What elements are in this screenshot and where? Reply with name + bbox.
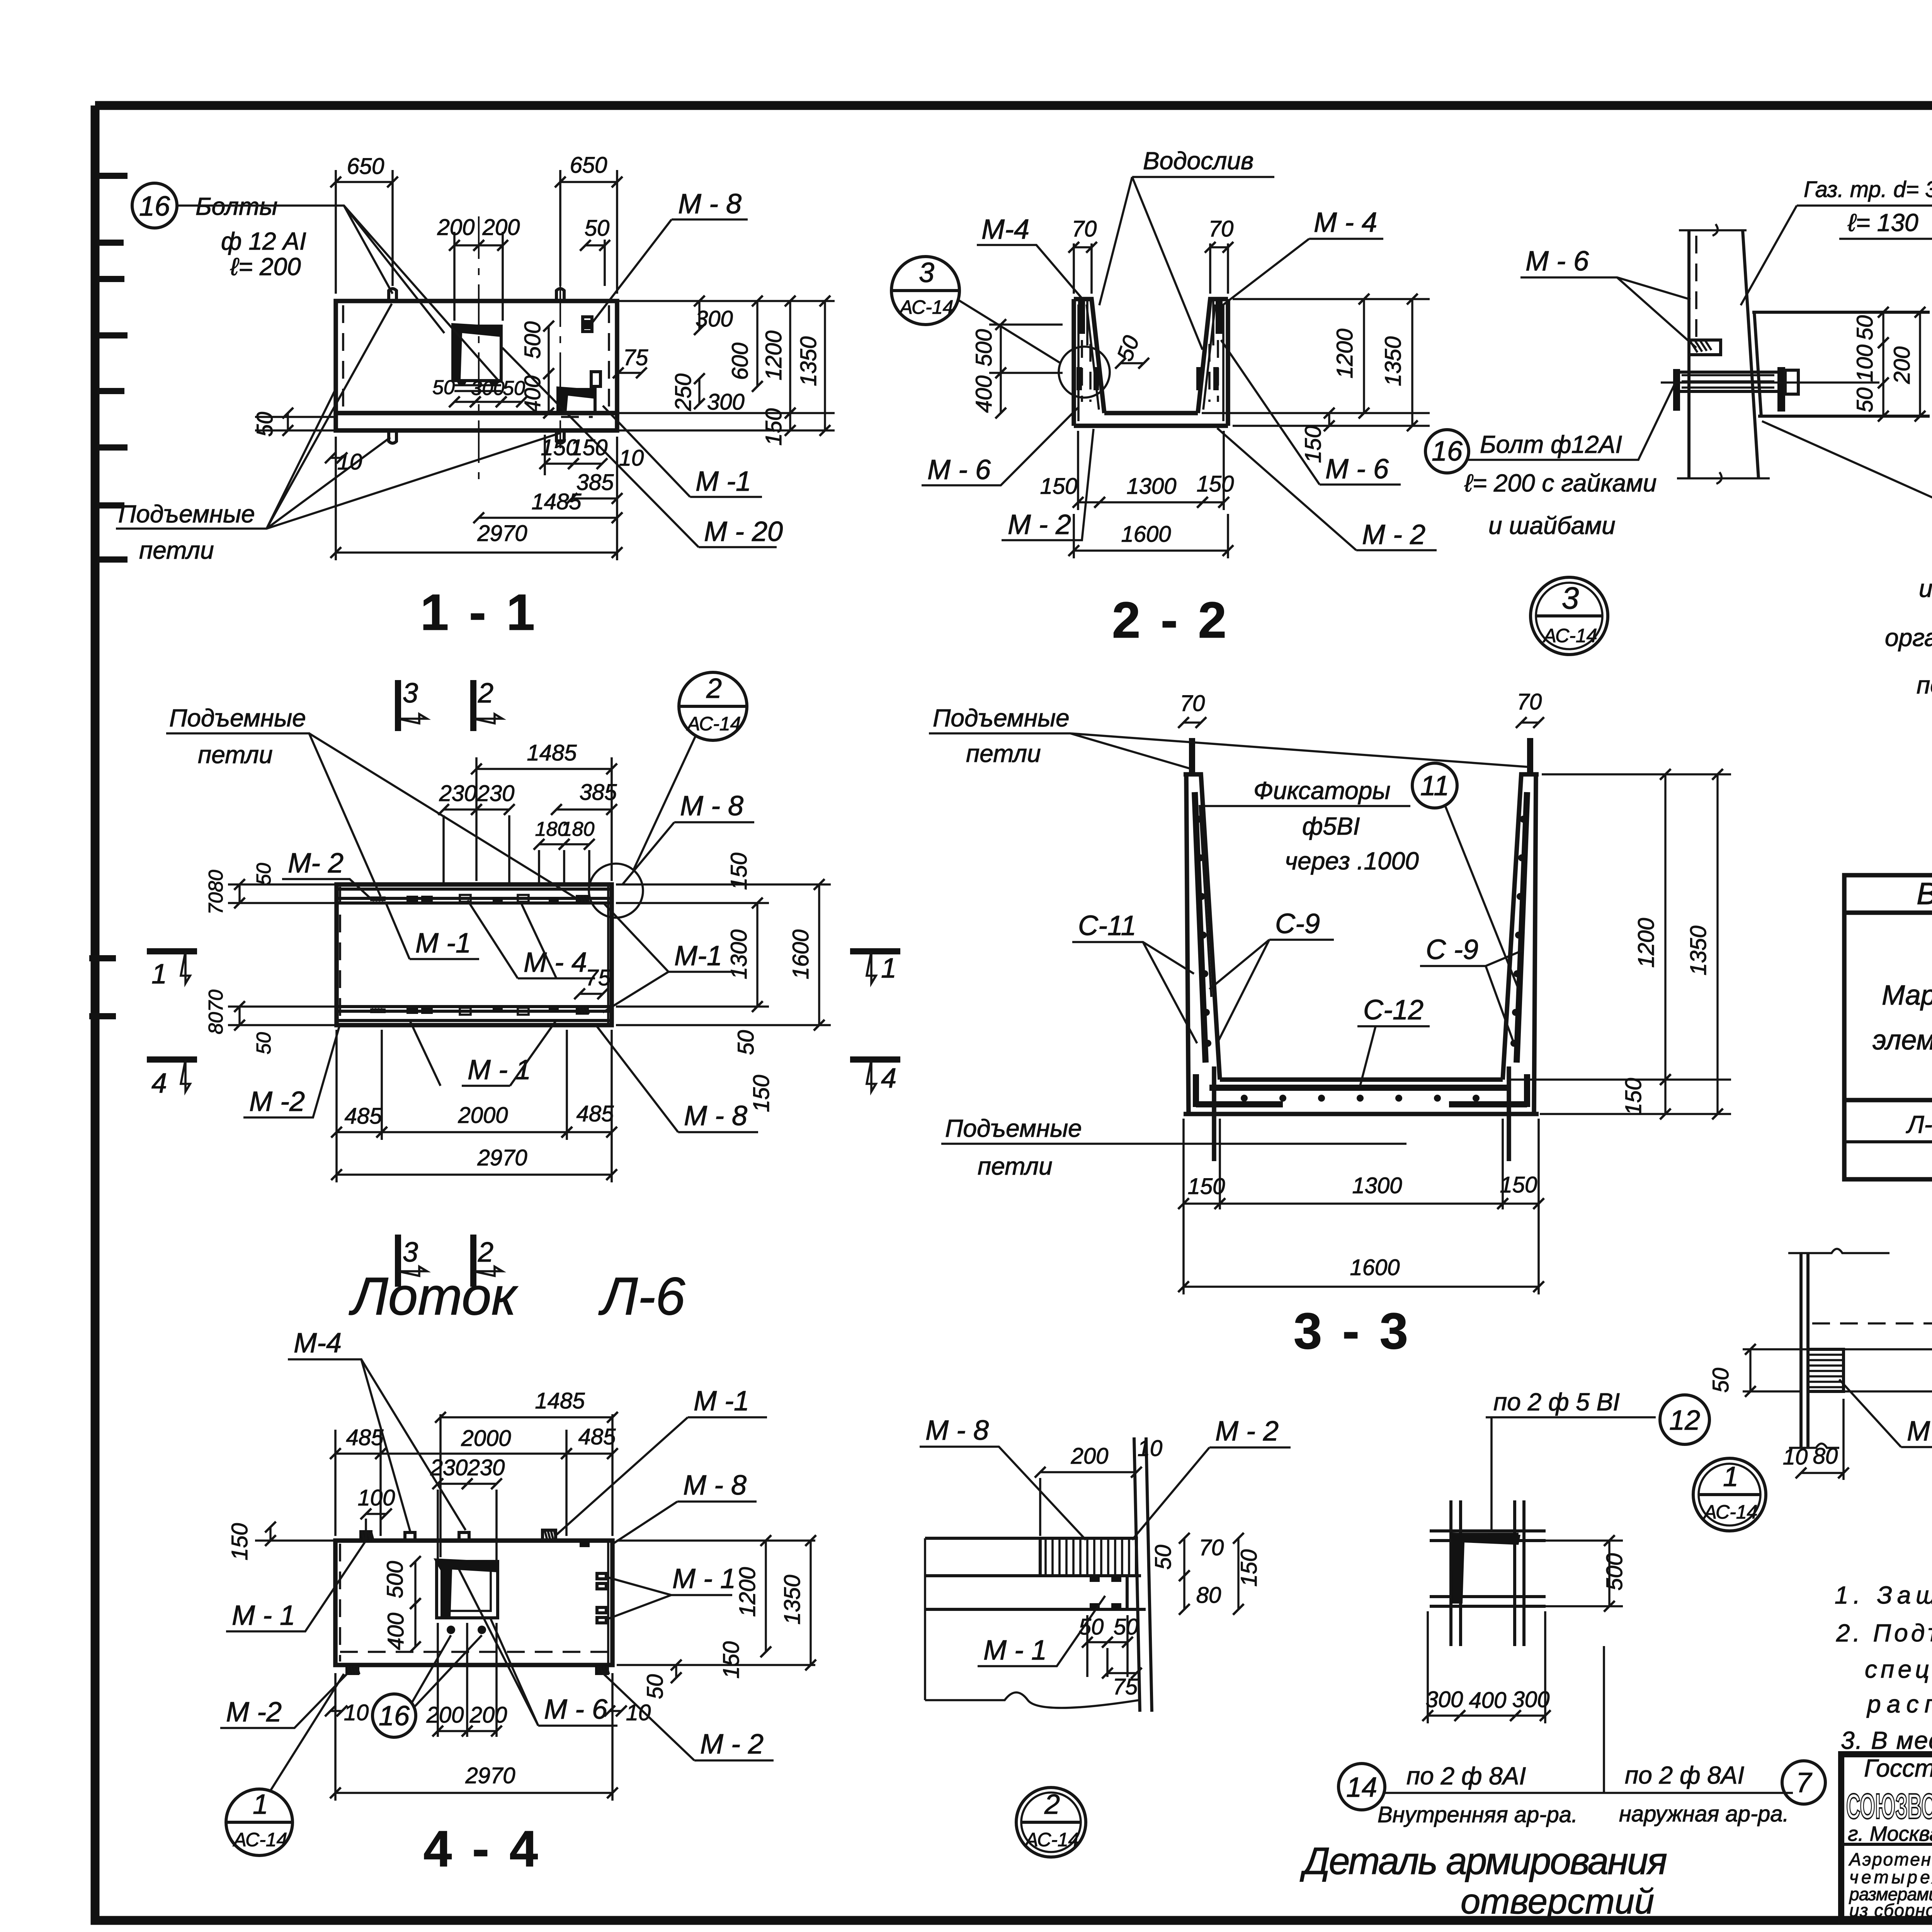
svg-text:М - 8: М - 8 [683,1470,747,1501]
svg-text:300: 300 [471,377,505,400]
svg-text:1350: 1350 [780,1575,805,1624]
svg-text:70: 70 [1517,689,1542,714]
svg-text:50: 50 [252,412,277,437]
svg-text:1350: 1350 [1686,925,1711,975]
svg-text:300: 300 [1512,1687,1550,1712]
outer rectangle [337,884,612,1025]
svg-text:400: 400 [1469,1688,1507,1713]
svg-text:200: 200 [437,215,475,240]
bottom labels [1338,1764,1385,1810]
svg-text:3: 3 [403,1237,418,1268]
svg-text:100: 100 [1852,345,1878,382]
svg-text:ℓ= 200 с гайками: ℓ= 200 с гайками [1464,469,1657,497]
svg-text:50: 50 [1852,315,1878,340]
svg-text:по 2 ф 8АI: по 2 ф 8АI [1406,1762,1526,1790]
svg-text:М -1: М -1 [415,928,471,959]
svg-text:230: 230 [439,781,477,806]
svg-text:150: 150 [1500,1172,1537,1197]
svg-text:500: 500 [383,1561,408,1599]
flag circle 3/AC-14 [891,257,959,325]
svg-text:1600: 1600 [1350,1255,1400,1280]
bottom wall band lines [337,1007,612,1020]
svg-text:АС-14: АС-14 [686,713,741,735]
opening M-20 with thick flange [454,326,501,381]
svg-text:С-12: С-12 [1363,995,1423,1026]
left wall outline [1074,299,1104,426]
svg-text:400: 400 [520,376,545,413]
svg-text:М -2: М -2 [249,1086,305,1117]
svg-text:по 2 ф 5 ВI: по 2 ф 5 ВI [1493,1388,1620,1416]
right side dims [617,300,835,302]
hatched plate M-8 [1040,1538,1136,1576]
dims [1040,1471,1136,1473]
anchor blobs left [1077,367,1099,390]
svg-text:11: 11 [1420,770,1449,801]
svg-text:Фиксаторы: Фиксаторы [1253,777,1390,804]
svg-text:Аэротенки- смесители: Аэротенки- смесители [1848,1849,1932,1869]
dim 650 right [559,170,561,286]
top bolt right [556,289,564,301]
svg-text:М - 20: М - 20 [704,516,783,547]
small embed right [559,389,595,413]
bottom dims 485 2000 485 2970 [335,1030,338,1182]
dim 500 [1526,1539,1623,1542]
svg-text:1485: 1485 [531,489,582,514]
svg-text:М - 1: М - 1 [232,1600,295,1631]
anchor blobs right [1196,367,1219,390]
svg-text:385: 385 [577,470,614,495]
dims 300 400 300 [1427,1611,1429,1723]
svg-text:ℓ= 200: ℓ= 200 [230,253,301,281]
svg-text:2000: 2000 [461,1426,511,1451]
svg-text:10: 10 [344,1700,369,1725]
flag 3/AC-14 double circle [1531,577,1608,655]
svg-text:1200: 1200 [1332,328,1357,378]
svg-text:Подъемные: Подъемные [933,704,1070,732]
svg-text:петли: петли [966,740,1041,767]
svg-text:1: 1 [151,959,167,990]
svg-text:150: 150 [1188,1174,1225,1199]
inner dashed embeds right [1209,340,1218,402]
bottom bolt mid [556,430,564,443]
svg-text:ф 12 АI: ф 12 АI [221,227,306,255]
svg-text:70: 70 [1199,1535,1224,1560]
title block [1841,1753,1932,1920]
bottom dim 1600 [1073,514,1075,558]
svg-text:400: 400 [971,376,997,413]
svg-text:1200: 1200 [761,330,786,380]
svg-text:80: 80 [1196,1583,1221,1608]
svg-text:12: 12 [1669,1405,1700,1436]
svg-text:300: 300 [696,306,733,332]
svg-text:Болт ф12АI: Болт ф12АI [1480,430,1622,458]
svg-text:2970: 2970 [477,1145,527,1170]
svg-text:петли: петли [978,1152,1053,1180]
bottom edge embeds [345,1665,359,1675]
top edge line [1752,311,1930,314]
svg-text:150: 150 [1621,1078,1646,1116]
binder tick marks [89,176,128,1016]
svg-text:485: 485 [345,1104,383,1129]
svg-text:75: 75 [586,965,611,990]
svg-text:3 - 3: 3 - 3 [1294,1303,1411,1359]
drain plate [1754,312,1761,416]
svg-text:4: 4 [881,1063,896,1094]
svg-text:180: 180 [561,818,595,840]
break marks [1677,230,1770,478]
central opening double border [437,1561,498,1618]
section cut marks 3 2 bottom [395,1235,401,1287]
svg-text:4: 4 [151,1068,167,1099]
svg-text:Выборка стали на 1 элемен: Выборка стали на 1 элемент [1917,876,1932,911]
svg-text:230: 230 [477,781,515,806]
flag 16 [372,1694,416,1737]
top edge embeds [359,1530,372,1541]
section 1-1 view [116,153,835,641]
svg-text:ф5ВI: ф5ВI [1302,812,1360,840]
svg-text:2: 2 [1044,1789,1060,1820]
svg-text:300: 300 [1426,1687,1463,1712]
svg-text:Госстрой: Госстрой [1864,1754,1932,1782]
svg-text:14: 14 [1346,1772,1377,1803]
svg-text:1350: 1350 [1381,336,1406,386]
svg-text:Подъемные: Подъемные [118,500,255,528]
svg-text:Л-6: Л-6 [598,1267,685,1326]
svg-text:75: 75 [623,345,648,370]
svg-text:М - 1: М - 1 [983,1635,1047,1666]
svg-text:1600: 1600 [1121,522,1171,547]
svg-text:из поделочного: из поделочного [1919,575,1932,602]
svg-text:1485: 1485 [527,740,577,765]
leader bolts [177,206,498,381]
small plate below [1087,1576,1127,1609]
svg-text:специальной траверсой,: специальной траверсой, не допуская перед… [1865,1655,1932,1683]
wall outline [1689,230,1759,478]
inner dashed embeds left [1082,340,1090,402]
svg-text:200: 200 [482,215,520,240]
svg-text:650: 650 [570,153,607,178]
svg-text:2970: 2970 [465,1763,515,1788]
svg-text:50: 50 [1112,332,1144,364]
hatched plate M-2 [1808,1349,1844,1391]
svg-text:10: 10 [619,446,644,471]
svg-text:7: 7 [1796,1767,1813,1798]
slab bottom [1074,423,1228,428]
svg-text:М - 6: М - 6 [927,454,991,485]
corner bars [1196,1074,1527,1107]
dim 180 180 [539,843,564,845]
lifting loop top left [1189,738,1195,774]
svg-text:200: 200 [426,1702,464,1728]
dim 650 left [335,170,337,294]
bolt through wall [1679,372,1777,391]
svg-text:50: 50 [1079,1614,1104,1639]
svg-text:400: 400 [383,1613,408,1650]
dim 50 300 50 under opening [454,401,475,403]
svg-text:1. Защитный слой: 1. Защитный слой бетона - 20мм. [1835,1581,1932,1609]
svg-text:200: 200 [1889,347,1915,384]
svg-text:наружная ар-ра.: наружная ар-ра. [1619,1801,1789,1827]
svg-text:по ТУ М Х П 26 -54: по ТУ М Х П 26 -54 [1917,671,1932,699]
svg-text:2 - 2: 2 - 2 [1112,592,1230,648]
svg-text:150: 150 [570,435,608,460]
svg-text:70: 70 [1072,216,1097,241]
svg-text:2: 2 [706,673,722,704]
svg-text:1485: 1485 [535,1388,585,1413]
svg-text:1: 1 [253,1789,268,1820]
svg-text:отверстий: отверстий [1461,1882,1654,1921]
svg-text:через .1000: через .1000 [1285,847,1419,875]
svg-text:70: 70 [1209,216,1234,241]
svg-text:М- 2: М- 2 [288,848,344,879]
svg-text:1 - 1: 1 - 1 [420,584,538,641]
svg-text:50: 50 [1708,1368,1733,1393]
dashed left joint [339,887,341,1024]
svg-text:С-11: С-11 [1078,910,1136,941]
detail circle top right [589,864,643,918]
svg-text:50: 50 [585,216,610,241]
svg-text:Марка: Марка [1882,980,1932,1011]
svg-text:1200: 1200 [735,1567,760,1617]
svg-text:М - 1: М - 1 [672,1563,736,1594]
svg-text:2: 2 [478,678,493,709]
svg-text:230: 230 [467,1455,505,1480]
svg-text:элемента: элемента [1872,1025,1932,1056]
svg-text:650: 650 [347,154,384,179]
svg-text:1200: 1200 [1634,918,1659,968]
formwork dashed line right [608,305,610,410]
svg-text:М - 2: М - 2 [700,1729,764,1760]
svg-text:3: 3 [1562,581,1579,615]
element body outline [336,301,617,413]
svg-text:Деталь армирования: Деталь армирования [1299,1840,1667,1882]
flag 2/AC-14 double [1016,1787,1086,1857]
rebar dots left wall [1195,816,1527,1102]
svg-text:петли: петли [198,741,273,769]
svg-text:СОЮЗВОДОКАНАЛПРОЕКТ: СОЮЗВОДОКАНАЛПРОЕКТ [1846,1787,1932,1826]
svg-text:500: 500 [971,329,997,367]
svg-text:80: 80 [205,870,227,892]
svg-text:200: 200 [1071,1444,1109,1469]
section cut marks 1 4 right [850,948,900,954]
svg-text:150: 150 [726,853,752,890]
svg-text:М - 2: М - 2 [1215,1416,1279,1447]
svg-text:Л- 6: Л- 6 [1906,1111,1932,1138]
svg-text:М - 8: М - 8 [925,1415,989,1446]
svg-text:1300: 1300 [1126,474,1176,499]
svg-text:500: 500 [1602,1553,1627,1591]
svg-text:Подъемные: Подъемные [169,704,306,732]
top surface lines [925,1538,1146,1609]
svg-text:230: 230 [430,1455,468,1480]
data row [1906,1106,1932,1138]
dims 500 400 left [989,323,1063,326]
svg-text:50: 50 [432,376,455,399]
svg-text:500: 500 [520,321,545,359]
loop bars through slab [1214,1066,1509,1161]
svg-text:16: 16 [379,1701,410,1731]
right dims [1542,773,1731,776]
svg-text:АС-14: АС-14 [233,1829,287,1850]
flag 2/AC-14 [679,672,747,740]
svg-text:2970: 2970 [477,521,527,546]
dims 1200 1350 right [1233,298,1430,300]
slab inner bottom [1104,411,1198,415]
hole reinforcement detail [1299,1388,1825,1921]
svg-text:М - 2: М - 2 [1362,519,1425,550]
svg-text:50: 50 [1852,388,1878,413]
svg-text:Внутренняя ар-ра.: Внутренняя ар-ра. [1378,1802,1578,1827]
svg-text:АС-14: АС-14 [899,296,954,318]
right dims [616,883,831,886]
wall embed detail (node 2) [920,1415,1291,1857]
lifting loop top right [1527,738,1533,774]
svg-text:50: 50 [643,1674,668,1699]
embedded plate M-4 left [1078,299,1085,334]
svg-text:16: 16 [139,191,170,222]
svg-text:150: 150 [761,408,786,446]
svg-text:М - 8: М - 8 [680,791,743,821]
flag 16 bolt [1425,430,1469,473]
svg-text:80: 80 [1813,1444,1838,1469]
svg-text:М -2: М -2 [1907,1416,1932,1447]
detail circle on left wall [1059,347,1110,398]
svg-text:Лоток: Лоток [349,1267,519,1326]
svg-text:2. Подъем лотка за вер: 2. Подъем лотка за верхние петли осущест… [1836,1619,1932,1647]
svg-text:70: 70 [205,990,227,1012]
svg-text:200: 200 [469,1702,507,1728]
svg-text:М - 6: М - 6 [544,1694,608,1725]
svg-text:10: 10 [337,449,362,474]
svg-text:1: 1 [881,953,896,984]
svg-text:150: 150 [1040,474,1078,499]
svg-text:10: 10 [1783,1444,1808,1469]
section cut marks 1 4 left [147,948,197,954]
svg-text:150: 150 [749,1075,774,1112]
dim 200 200 [453,232,456,321]
wall lines [1134,1437,1152,1712]
left wall [1184,774,1220,1114]
svg-text:50: 50 [253,863,275,885]
svg-text:ℓ= 130: ℓ= 130 [1847,209,1918,236]
svg-text:Подъемные: Подъемные [945,1114,1082,1142]
flag 1/AC-14 [226,1789,293,1855]
svg-text:16: 16 [1432,436,1463,467]
notes Примечания [1835,1537,1932,1754]
bottom bolt left [389,430,396,443]
top wall band lines [337,889,612,903]
svg-text:50: 50 [733,1030,759,1055]
flag 1/AC-14 double [1693,1458,1766,1531]
right wall outline [1198,299,1228,426]
dim 50 top right [585,244,605,246]
svg-text:50: 50 [1151,1545,1176,1570]
dims top [439,1414,442,1557]
thick corner bar [1454,1537,1519,1604]
svg-text:4 - 4: 4 - 4 [423,1820,541,1877]
svg-text:485: 485 [578,1424,616,1449]
formwork dashed line left [342,305,344,410]
svg-text:2: 2 [478,1237,493,1268]
svg-text:М-4: М-4 [981,214,1029,245]
squiggle bottom [925,1692,1139,1708]
top bolt left [389,289,396,301]
svg-text:150: 150 [227,1523,252,1561]
svg-text:АС-14: АС-14 [1024,1829,1079,1850]
svg-text:АС-14: АС-14 [1703,1501,1758,1523]
svg-text:1: 1 [1723,1461,1738,1492]
svg-text:С-9: С-9 [1275,908,1320,939]
svg-text:Водослив: Водослив [1143,147,1253,175]
section 2-2 view [891,147,1437,648]
svg-text:М -1: М -1 [694,1386,749,1417]
flag circle 16 [132,183,177,228]
svg-text:1300: 1300 [1352,1173,1402,1198]
section 4-4 view [220,1328,815,1877]
M-2 embed detail [1708,1249,1932,1480]
bottom dims [1182,1119,1185,1294]
dim 1485 top [475,757,478,881]
svg-text:80: 80 [205,1012,227,1034]
right dims [617,1539,815,1542]
svg-text:М - 6: М - 6 [1325,454,1389,485]
svg-text:600: 600 [728,343,753,380]
wall rebar left (C-11) [1195,792,1206,1063]
svg-text:10: 10 [1138,1436,1163,1461]
wall rebar right (C-9) [1517,792,1527,1063]
svg-text:250: 250 [671,374,696,412]
embeds on bottom band [370,1007,589,1015]
svg-text:485: 485 [577,1101,614,1126]
svg-text:150: 150 [1197,471,1234,497]
dim 230 230 385 [444,808,476,810]
svg-text:органического стекла: органического стекла [1885,624,1932,651]
svg-text:М - 4: М - 4 [524,947,587,978]
svg-text:3. В местах отверстий армату: 3. В местах отверстий арматуру сеток обр… [1841,1726,1932,1754]
svg-text:50: 50 [253,1032,275,1054]
svg-text:М -2: М -2 [226,1697,282,1728]
right side bolt marks [583,317,600,386]
hatch loop marks [372,896,589,1014]
svg-text:75: 75 [1113,1674,1138,1699]
bottom dims 150 1300 150 [1077,431,1079,510]
bottom slab band [336,413,617,430]
svg-text:485: 485 [346,1425,384,1450]
svg-text:50: 50 [1114,1614,1139,1639]
svg-text:г. Москва: г. Москва [1848,1822,1932,1845]
table: Выборка стали на 1 элемент [1844,875,1932,1179]
svg-text:300: 300 [707,389,745,415]
pipe detail (nodes 15/16) [1425,175,1932,699]
M-6 angle step [1689,340,1721,355]
svg-text:1350: 1350 [796,336,821,386]
svg-text:150: 150 [1236,1549,1262,1587]
svg-text:2000: 2000 [457,1103,508,1128]
svg-text:М - 2: М - 2 [1008,509,1071,540]
left cell [1841,1843,1932,1846]
svg-text:М - 8: М - 8 [684,1100,747,1131]
svg-text:М-1: М-1 [674,940,722,971]
extension lines right [1844,1349,1932,1391]
slab rebar C-12 [1209,1085,1511,1091]
svg-text:петли: петли [139,536,214,564]
svg-text:150: 150 [1301,426,1326,463]
right side embed marks [597,1573,606,1623]
svg-text:70: 70 [1180,691,1205,716]
dim 50 100 50 200 right [1882,312,1884,343]
svg-text:385: 385 [580,780,617,805]
left lip of adjacent element [255,417,336,430]
